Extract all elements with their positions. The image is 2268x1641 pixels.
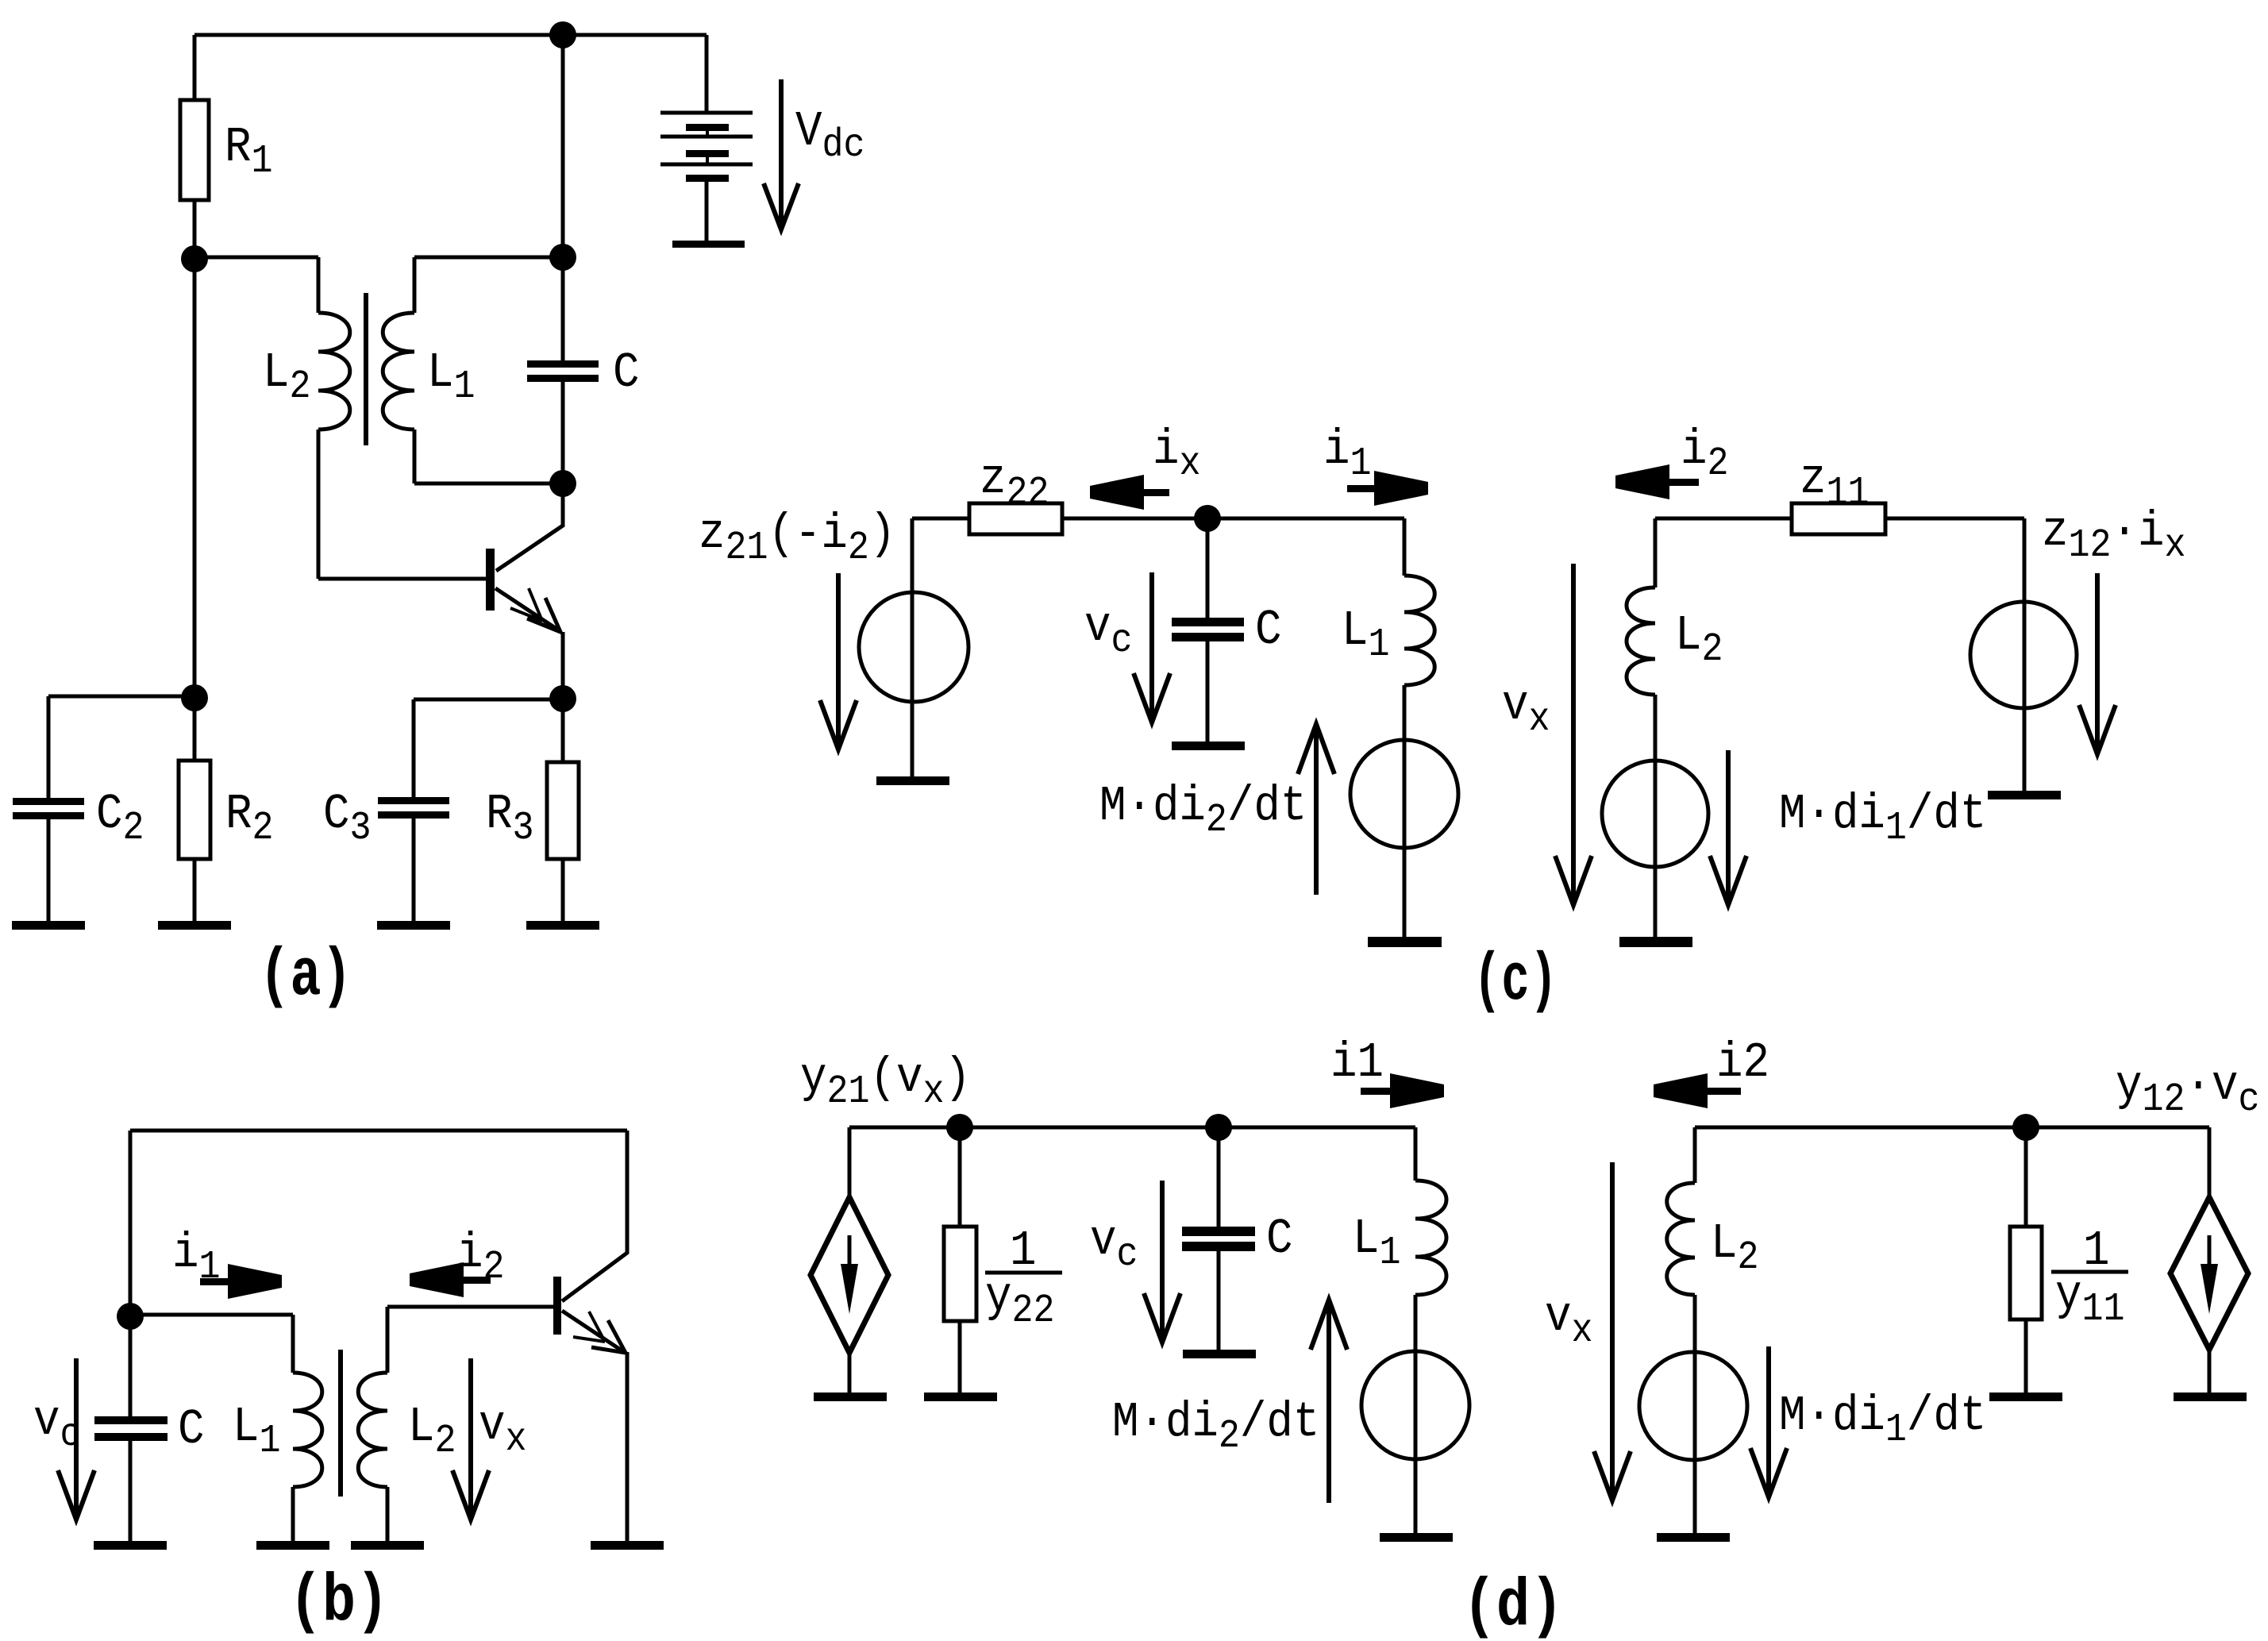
svg-text:y21(vx): y21(vx) xyxy=(800,1050,971,1114)
wire: (d) C top lead xyxy=(1217,1127,1221,1228)
battery Vdc (a) xyxy=(660,113,753,248)
inductor L2 (d) xyxy=(1667,1183,1695,1295)
wire: (b) L1 bottom lead xyxy=(291,1487,295,1541)
svg-text:i2: i2 xyxy=(1716,1034,1769,1090)
inductor L1 (b) xyxy=(293,1373,322,1487)
svg-text:C: C xyxy=(1266,1211,1292,1266)
inductor L2 (a) xyxy=(318,313,350,430)
inductor L2 (b) xyxy=(358,1373,387,1487)
wire: (d) y12 diamond bottom lead xyxy=(2208,1350,2212,1393)
wire: (d) L2 top lead xyxy=(1693,1127,1697,1183)
ground: under z12 source xyxy=(1988,791,2061,799)
node: (d) node over 1/y22 xyxy=(946,1114,973,1141)
resistor 1/y11 xyxy=(2010,1227,2042,1319)
wire: (b) L2 top lead to base xyxy=(387,1307,553,1373)
ground: under 1/y11 xyxy=(1989,1393,2062,1401)
ground: under L2 source (d) xyxy=(1657,1533,1730,1542)
wire: (d) 1/y22 top lead xyxy=(958,1127,962,1227)
transistor Q1 (b) xyxy=(553,1277,626,1353)
node: (a) base bias node under R1 xyxy=(181,245,208,272)
wire: (b) node down to capacitor C xyxy=(129,1316,133,1418)
wire: (a) R2 top lead xyxy=(193,698,197,761)
ground: under C (d) xyxy=(1183,1350,1256,1358)
wire: (b) L2 bottom lead xyxy=(386,1487,390,1541)
wire: (d) C bottom lead xyxy=(1217,1250,1221,1350)
ground: under C3 xyxy=(377,921,450,930)
dependent source M·di1/dt circle (c) xyxy=(1602,761,1708,867)
wire: (a) left rail top segment to R1 xyxy=(193,35,197,100)
resistor R2 xyxy=(179,761,210,859)
wire: (c) node down to capacitor C xyxy=(1206,518,1210,619)
wire: (a) capacitor C bottom lead xyxy=(561,380,565,483)
wire: (a) left rail node-to-node vertical xyxy=(193,259,197,698)
capacitor C3 xyxy=(378,797,449,819)
wire: (a) battery top lead xyxy=(705,35,709,112)
transistor Q1 (a) xyxy=(486,549,560,632)
arrow: i2 current arrow (d) xyxy=(1654,1073,1741,1108)
wire: (a) L2 bottom lead to transistor base xyxy=(318,430,486,579)
node: (a) tank top node xyxy=(549,244,576,271)
wire: (d) right top rail xyxy=(1695,1126,2209,1130)
wire: (c) right top wire through z11 xyxy=(1655,517,2024,521)
wire: (a) R2 bottom lead xyxy=(193,859,197,921)
wire: (a) collector lead xyxy=(496,483,563,571)
wire: (d) L1 bottom through source to ground xyxy=(1414,1295,1418,1533)
ground: under L1 source (d) xyxy=(1380,1533,1453,1542)
wire: (a) rail from top node down to tank row xyxy=(561,35,565,257)
ground: under z21 source xyxy=(876,776,949,785)
node: (a) collector node xyxy=(549,470,576,497)
capacitor C (b) xyxy=(94,1416,168,1441)
arrow: i1 current arrow (b) xyxy=(200,1264,282,1299)
dependent source M·di2/dt circle (c) xyxy=(1350,740,1458,848)
ground: under 1/y22 xyxy=(924,1393,997,1401)
arrow: Vdc polarity arrow xyxy=(764,79,799,229)
node: (d) node over 1/y11 xyxy=(2012,1114,2039,1141)
wire: (d) L1 top lead xyxy=(1414,1127,1418,1181)
wire: (c) z12 source lead through circle xyxy=(2023,518,2027,791)
arrow: i1 current arrow (c) xyxy=(1347,471,1428,506)
inductor L2 (c) xyxy=(1627,587,1655,695)
dependent source M·di1/dt circle (d) xyxy=(1639,1352,1747,1460)
transformer core (a) xyxy=(364,293,368,445)
wire: (b) capacitor C bottom lead xyxy=(129,1439,133,1541)
ground: under L1 source (c) xyxy=(1368,937,1442,947)
svg-text:M·di1/dt: M·di1/dt xyxy=(1779,786,1986,850)
svg-text:i1: i1 xyxy=(1330,1034,1384,1090)
svg-text:C: C xyxy=(613,345,639,400)
arrow: i2 current arrow (c) xyxy=(1615,464,1699,499)
ground: under C (c) xyxy=(1172,742,1245,750)
arrow: ix current arrow xyxy=(1090,475,1169,510)
arrow: M·di1/dt source arrow (d) xyxy=(1750,1346,1787,1497)
node: (c) vc node xyxy=(1194,505,1221,532)
label 1/y22 xyxy=(985,1223,1062,1333)
wire: (c) L2 top lead xyxy=(1654,518,1658,587)
node: (a) emitter node xyxy=(549,685,576,712)
svg-text:M·di1/dt: M·di1/dt xyxy=(1779,1388,1986,1452)
wire: (c) L2 bottom through source to ground xyxy=(1654,695,1658,937)
wire: (a) node to C2 branch xyxy=(48,696,194,798)
wire: (a) L1 bottom lead to collector node xyxy=(414,430,563,483)
arrow: i2 current arrow (b) xyxy=(410,1262,491,1297)
wire: (d) y21 diamond top lead xyxy=(848,1127,852,1197)
wire: (a) node to L2 top xyxy=(194,257,318,313)
node: (d) node over C xyxy=(1205,1114,1232,1141)
wire: (d) L2 bottom through source to ground xyxy=(1693,1295,1697,1533)
arrow: vc voltage arrow (b) xyxy=(58,1358,94,1520)
capacitor C (c) xyxy=(1172,618,1244,641)
wire: (a) top supply rail xyxy=(194,33,707,37)
wire: (d) 1/y11 top lead xyxy=(2024,1127,2028,1227)
svg-text:(a): (a) xyxy=(260,939,352,1015)
ground: under C2 xyxy=(12,921,85,930)
ground: under emitter (b) xyxy=(591,1541,664,1550)
inductor L1 (c) xyxy=(1404,576,1434,685)
ground: under y12 diamond xyxy=(2174,1393,2247,1401)
wire: (c) z22 to L1 corner xyxy=(1062,517,1404,521)
arrow: z21 source polarity arrow xyxy=(820,573,857,749)
ground: under y21 diamond xyxy=(814,1393,887,1401)
svg-text:M·di2/dt: M·di2/dt xyxy=(1112,1394,1319,1458)
resistor R1 xyxy=(180,100,209,200)
inductor L1 (a) xyxy=(383,313,414,430)
resistor z11 xyxy=(1792,503,1885,534)
svg-text:M·di2/dt: M·di2/dt xyxy=(1099,778,1307,842)
wire: (c) z21 source top lead xyxy=(912,518,969,776)
wire: (c) L1 top lead xyxy=(1403,518,1407,576)
node: (b) input node xyxy=(117,1303,144,1330)
arrow: vx voltage arrow (d) xyxy=(1594,1162,1631,1500)
transformer core (b) xyxy=(338,1350,343,1497)
svg-text:z12·ix: z12·ix xyxy=(2042,503,2185,568)
arrow: M·di2/dt source arrow (d) xyxy=(1311,1300,1347,1503)
wire: (d) y21 diamond bottom lead xyxy=(848,1353,852,1393)
node: (a) R2 top node xyxy=(181,684,208,711)
dependent source z21 circle xyxy=(859,592,968,702)
resistor z22 xyxy=(969,503,1062,534)
svg-text:(d): (d) xyxy=(1463,1570,1564,1641)
dependent source y21(vx) diamond xyxy=(811,1197,888,1353)
label 1/y11 xyxy=(2051,1223,2128,1331)
arrow: i1 current arrow (d) xyxy=(1361,1073,1444,1108)
dependent source M·di2/dt circle (d) xyxy=(1361,1351,1469,1459)
svg-text:(b): (b) xyxy=(289,1565,389,1640)
inductor L1 (d) xyxy=(1415,1181,1446,1295)
wire: (c) capacitor C bottom lead xyxy=(1206,640,1210,742)
wire: (b) top feedback rail xyxy=(130,1129,627,1133)
wire: (a) C3 bottom lead xyxy=(412,819,416,921)
wire: (a) R3 top lead xyxy=(561,699,565,762)
wire: (d) 1/y22 bottom lead xyxy=(958,1321,962,1393)
node: (a) top rail junction xyxy=(549,21,576,48)
ground: under R2 xyxy=(158,921,231,930)
capacitor C (a) xyxy=(527,360,599,382)
ground: under L2 (b) xyxy=(351,1541,424,1550)
arrow: vx voltage arrow (c) xyxy=(1555,564,1592,905)
ground: under C (b) xyxy=(94,1541,167,1550)
arrow: M·di2/dt source arrow (c) xyxy=(1298,724,1334,895)
wire: (b) left vertical to node xyxy=(129,1131,133,1316)
wire: (a) R3 bottom lead xyxy=(561,859,565,921)
svg-text:(c): (c) xyxy=(1473,944,1558,1019)
ground: under R3 xyxy=(526,921,599,930)
dependent source z12·ix circle xyxy=(1970,602,2077,708)
wire: (d) 1/y11 bottom lead xyxy=(2024,1319,2028,1393)
ground: under L1 (b) xyxy=(256,1541,329,1550)
arrow: z12·ix polarity arrow xyxy=(2079,573,2116,754)
wire: (a) emitter node to C3 branch xyxy=(414,699,563,797)
wire: (d) left top rail xyxy=(849,1126,1415,1130)
svg-text:y12·vc: y12·vc xyxy=(2116,1057,2259,1122)
wire: (b) base lead is part of L2 top lead xyxy=(387,1305,553,1309)
dependent source y12·vc diamond xyxy=(2170,1197,2248,1350)
arrow: vc voltage arrow (c) xyxy=(1134,572,1170,722)
wire: (b) node to L1 top xyxy=(130,1315,293,1373)
resistor R3 xyxy=(547,762,579,859)
svg-text:1: 1 xyxy=(1010,1223,1036,1278)
arrow: M·di1/dt source arrow (c) xyxy=(1710,750,1746,905)
capacitor C2 xyxy=(13,798,84,819)
arrow: vx voltage arrow (b) xyxy=(452,1358,489,1520)
svg-text:C: C xyxy=(178,1401,204,1457)
wire: (d) y12 diamond top lead xyxy=(2208,1127,2212,1197)
svg-text:C: C xyxy=(1255,602,1281,657)
wire: (c) L1 bottom through source to ground xyxy=(1403,685,1407,937)
capacitor C (d) xyxy=(1182,1227,1255,1251)
arrow: vc voltage arrow (d) xyxy=(1144,1181,1180,1342)
wire: (a) R1 bottom lead xyxy=(193,200,197,259)
wire: (a) C2 bottom lead xyxy=(47,819,51,921)
wire: (b) emitter lead down xyxy=(626,1352,630,1541)
ground: under L2 source (c) xyxy=(1619,937,1692,947)
resistor 1/y22 xyxy=(944,1227,976,1321)
wire: (a) emitter lead down xyxy=(561,632,565,699)
wire: (a) tank node down to capacitor C xyxy=(561,257,565,362)
wire: (a) L1 top lead to tank node xyxy=(414,257,563,313)
wire: (b) collector lead xyxy=(562,1131,627,1301)
